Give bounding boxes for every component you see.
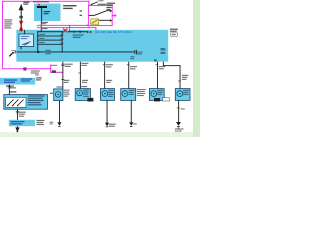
svg-text:(W/O DRL) SEE DRL SYS CHECK: (W/O DRL) SEE DRL SYS CHECK [95, 31, 133, 34]
svg-text:G105: G105 [175, 129, 182, 133]
